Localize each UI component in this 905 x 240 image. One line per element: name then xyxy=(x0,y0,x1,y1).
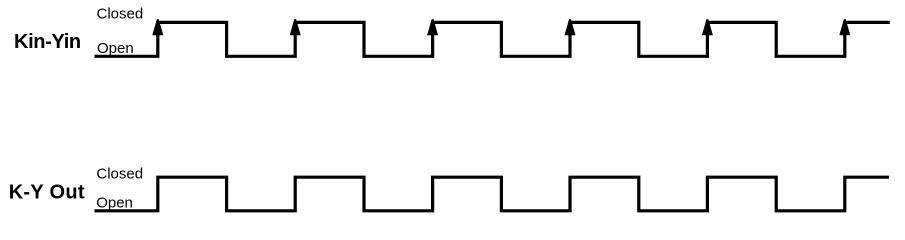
svg-text:Closed: Closed xyxy=(97,6,144,23)
svg-text:K-Y Out: K-Y Out xyxy=(9,182,85,204)
svg-text:Kin-Yin: Kin-Yin xyxy=(14,31,81,53)
svg-text:Closed: Closed xyxy=(96,166,143,183)
svg-text:Open: Open xyxy=(96,194,133,211)
svg-text:Open: Open xyxy=(97,40,134,57)
